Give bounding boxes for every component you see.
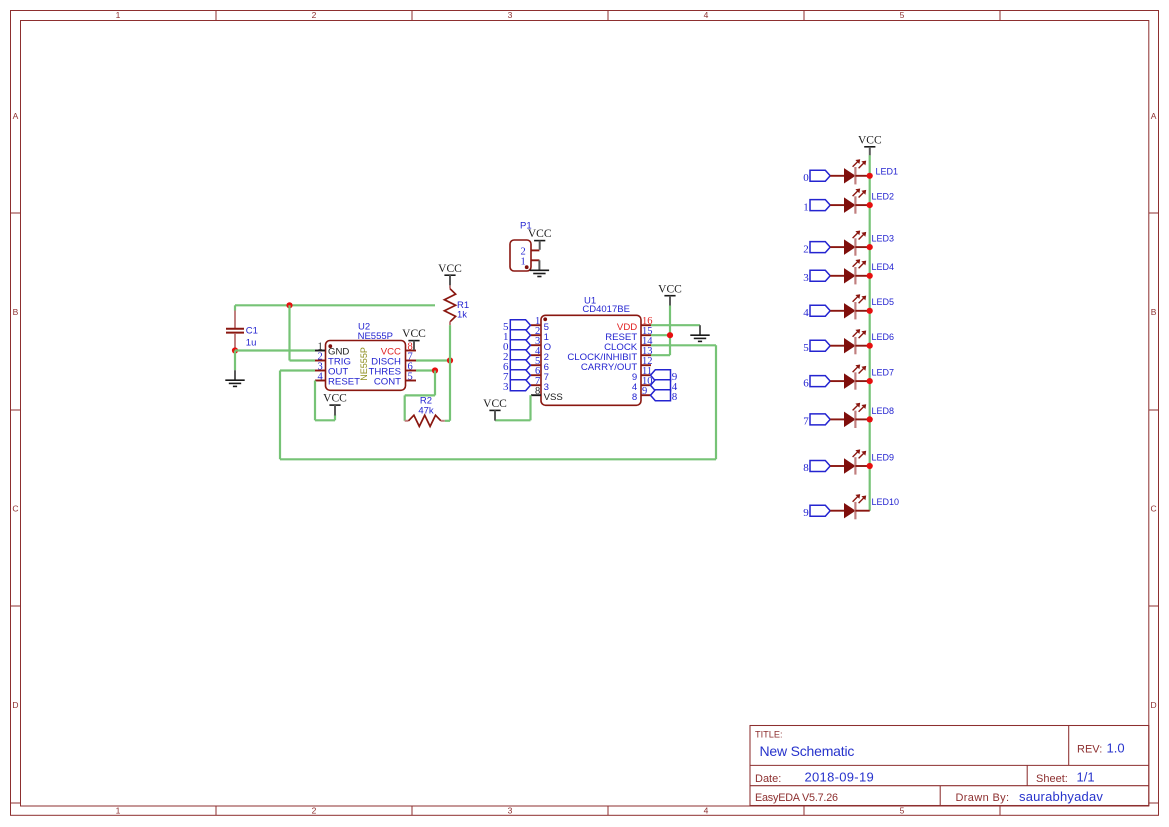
node LED4 rail junction bbox=[867, 273, 873, 279]
net flag 3 at U1 pin 7 bbox=[503, 380, 531, 394]
ground at U1 VDD line bbox=[690, 325, 709, 341]
svg-text:LED5: LED5 bbox=[872, 297, 895, 307]
svg-text:LED1: LED1 bbox=[876, 167, 899, 177]
net flag 7 at LED8 bbox=[803, 414, 830, 428]
net flag 2 at LED3 bbox=[803, 242, 830, 256]
wire top rail C1 to x435 bbox=[235, 304, 435, 306]
node top rail junction bbox=[286, 302, 292, 308]
svg-text:1/1: 1/1 bbox=[1077, 769, 1095, 784]
svg-text:VCC: VCC bbox=[402, 328, 426, 340]
node LED8 rail junction bbox=[867, 416, 873, 422]
svg-text:VCC: VCC bbox=[528, 228, 552, 240]
U2 pin 6 THRES bbox=[368, 362, 416, 378]
svg-text:VCC: VCC bbox=[483, 398, 507, 410]
svg-text:3: 3 bbox=[508, 10, 513, 20]
power VCC at LED rail bbox=[858, 134, 882, 155]
svg-text:REV:: REV: bbox=[1077, 744, 1102, 756]
ground below C1 bbox=[225, 370, 244, 386]
wire C1 to ground bbox=[234, 351, 236, 371]
svg-text:A: A bbox=[13, 111, 19, 121]
wire VDD to ground bbox=[651, 324, 700, 326]
node C1/GND junction bbox=[232, 347, 238, 353]
svg-text:5: 5 bbox=[803, 342, 809, 354]
LED1 bbox=[830, 159, 898, 184]
node LED1 rail junction bbox=[867, 173, 873, 179]
node LED7 rail junction bbox=[867, 378, 873, 384]
svg-text:6: 6 bbox=[803, 377, 809, 389]
net flag 9 at LED10 bbox=[803, 505, 830, 519]
U1 pin 8 VSS bbox=[531, 386, 563, 403]
U1 pin 3 (Q0) bbox=[531, 336, 551, 353]
svg-text:1u: 1u bbox=[246, 338, 257, 349]
net flag 5 at LED6 bbox=[803, 340, 830, 354]
svg-text:5: 5 bbox=[900, 10, 905, 20]
U1 pin 13 CLOCK/INHIBIT bbox=[567, 346, 652, 363]
svg-text:CARRY/OUT: CARRY/OUT bbox=[581, 362, 637, 373]
wire RESET to VCC bbox=[315, 381, 335, 421]
svg-text:1: 1 bbox=[803, 201, 809, 213]
net flag 1 at U1 pin 2 bbox=[503, 330, 531, 344]
net flag 0 at LED1 bbox=[803, 170, 830, 184]
svg-text:B: B bbox=[1151, 307, 1157, 317]
svg-text:Sheet:: Sheet: bbox=[1036, 773, 1068, 785]
net flag 7 at U1 pin 6 bbox=[503, 370, 531, 384]
svg-text:2018-09-19: 2018-09-19 bbox=[805, 769, 875, 784]
LED9 bbox=[830, 449, 894, 474]
power VCC above U1 bbox=[658, 283, 682, 305]
svg-text:4: 4 bbox=[704, 806, 709, 816]
svg-text:EasyEDA V5.7.26: EasyEDA V5.7.26 bbox=[755, 792, 838, 804]
svg-text:RESET: RESET bbox=[328, 377, 360, 388]
net flag 8 at U1 pin 9 bbox=[651, 390, 678, 404]
svg-text:3: 3 bbox=[803, 272, 809, 284]
capacitor C1 bbox=[226, 311, 258, 351]
wire DISCH to R1/R2 junction bbox=[416, 359, 450, 361]
net flag 8 at LED9 bbox=[803, 461, 830, 475]
svg-text:4: 4 bbox=[704, 10, 709, 20]
LED3 bbox=[830, 231, 894, 256]
U1 pin 4 (Q2) bbox=[531, 346, 549, 363]
svg-text:B: B bbox=[13, 307, 19, 317]
svg-text:VCC: VCC bbox=[438, 263, 462, 275]
net flag 4 at U1 pin 10 bbox=[651, 380, 678, 394]
net flag 6 at U1 pin 5 bbox=[503, 360, 531, 374]
wire R1 bottom rail bbox=[445, 325, 450, 421]
svg-text:7: 7 bbox=[803, 416, 809, 428]
net flag 5 at U1 pin 1 bbox=[503, 320, 531, 334]
net flag 2 at U1 pin 4 bbox=[503, 350, 531, 364]
svg-text:47k: 47k bbox=[418, 405, 434, 416]
U2 pin 1 GND bbox=[315, 342, 349, 358]
svg-text:2: 2 bbox=[803, 243, 809, 255]
U1 pin 12 CARRY/OUT bbox=[581, 356, 653, 373]
net flag 0 at U1 pin 3 bbox=[503, 340, 531, 354]
svg-text:New Schematic: New Schematic bbox=[760, 743, 855, 759]
svg-text:C: C bbox=[1151, 504, 1157, 514]
LED7 bbox=[830, 365, 894, 390]
svg-text:5: 5 bbox=[900, 806, 905, 816]
svg-text:2: 2 bbox=[312, 10, 317, 20]
svg-text:C: C bbox=[12, 504, 18, 514]
node RESET junction bbox=[667, 332, 673, 338]
U2 pin 5 CONT bbox=[374, 372, 416, 388]
U2 pin 7 DISCH bbox=[371, 352, 416, 368]
wire x435 down to R2 left bbox=[405, 371, 435, 421]
svg-text:1.0: 1.0 bbox=[1107, 741, 1125, 756]
wire VCC to RESET and CLOCK/INHIBIT bbox=[651, 306, 670, 356]
svg-text:8: 8 bbox=[672, 391, 678, 403]
U2 pin 4 RESET bbox=[315, 372, 360, 388]
svg-text:LED4: LED4 bbox=[872, 262, 895, 272]
svg-text:8: 8 bbox=[803, 462, 809, 474]
svg-text:VCC: VCC bbox=[658, 283, 682, 295]
svg-text:1k: 1k bbox=[457, 310, 467, 321]
resistor R1 1k bbox=[444, 285, 469, 325]
net flag 3 at LED4 bbox=[803, 270, 830, 284]
svg-text:CD4017BE: CD4017BE bbox=[582, 304, 630, 315]
svg-text:VCC: VCC bbox=[323, 393, 347, 405]
power VCC at U1 VSS bbox=[483, 398, 507, 421]
U1 pin 5 (Q6) bbox=[531, 356, 549, 373]
net flag 6 at LED7 bbox=[803, 376, 830, 390]
svg-text:1: 1 bbox=[116, 10, 121, 20]
svg-text:9: 9 bbox=[803, 507, 809, 519]
net flag 9 at U1 pin 11 bbox=[651, 370, 678, 384]
svg-text:TITLE:: TITLE: bbox=[755, 730, 783, 740]
wire TRIG branch bbox=[290, 305, 316, 360]
svg-text:2: 2 bbox=[312, 806, 317, 816]
IC U1 CD4017BE body bbox=[541, 296, 641, 406]
wire OUT feedback to CLOCK bbox=[280, 345, 716, 459]
U1 pin 6 (Q7) bbox=[531, 366, 549, 383]
svg-text:1: 1 bbox=[116, 806, 121, 816]
net flag 1 at LED2 bbox=[803, 200, 830, 214]
svg-text:8: 8 bbox=[632, 392, 637, 403]
U1 pin 2 (Q1) bbox=[531, 326, 549, 343]
svg-text:9: 9 bbox=[642, 386, 647, 397]
svg-text:saurabhyadav: saurabhyadav bbox=[1019, 789, 1103, 804]
connector P1 bbox=[510, 221, 532, 272]
svg-text:0: 0 bbox=[803, 172, 809, 184]
node LED9 rail junction bbox=[867, 463, 873, 469]
svg-text:3: 3 bbox=[508, 806, 513, 816]
LED8 bbox=[830, 403, 894, 428]
wire GND pin1 to C1 bbox=[235, 349, 315, 351]
svg-text:NE555P: NE555P bbox=[358, 331, 393, 342]
P1 pin 1 bbox=[520, 256, 539, 267]
svg-text:8: 8 bbox=[535, 386, 540, 397]
svg-text:LED10: LED10 bbox=[872, 497, 900, 507]
svg-text:4: 4 bbox=[803, 307, 809, 319]
title block bbox=[750, 726, 1149, 806]
U1 pin 11 9 bbox=[632, 366, 652, 383]
node DISCH junction bbox=[447, 357, 453, 363]
U1 pin 9 8 bbox=[632, 386, 651, 403]
U1 pin 14 CLOCK bbox=[604, 336, 653, 353]
svg-text:VCC: VCC bbox=[858, 134, 882, 146]
resistor R2 47k bbox=[405, 396, 445, 427]
svg-text:LED6: LED6 bbox=[872, 332, 895, 342]
node LED3 rail junction bbox=[867, 244, 873, 250]
svg-text:A: A bbox=[1151, 111, 1157, 121]
LED2 bbox=[830, 189, 894, 214]
U1 pin 1 (Q5) bbox=[531, 316, 549, 333]
U2 pin 2 TRIG bbox=[315, 352, 351, 368]
svg-text:3: 3 bbox=[503, 381, 509, 393]
power VCC at U2 RESET bbox=[323, 393, 347, 416]
wire C1 top lead connection bbox=[234, 305, 236, 310]
svg-text:CONT: CONT bbox=[374, 377, 401, 388]
wire VSS to VCC bbox=[495, 395, 531, 420]
svg-text:1: 1 bbox=[520, 256, 525, 267]
LED5 bbox=[830, 294, 894, 319]
net flag 4 at LED5 bbox=[803, 305, 830, 319]
svg-text:4: 4 bbox=[318, 372, 324, 383]
node LED6 rail junction bbox=[867, 343, 873, 349]
svg-text:Drawn By:: Drawn By: bbox=[956, 792, 1010, 804]
svg-text:LED9: LED9 bbox=[872, 452, 895, 462]
svg-text:D: D bbox=[12, 700, 18, 710]
node LED2 rail junction bbox=[867, 202, 873, 208]
LED4 bbox=[830, 259, 894, 284]
U1 pin 10 4 bbox=[632, 376, 653, 393]
svg-text:5: 5 bbox=[408, 372, 413, 383]
svg-text:LED8: LED8 bbox=[872, 406, 895, 416]
ground at P1 pin 1 bbox=[530, 260, 549, 276]
U1 pin 16 VDD bbox=[617, 316, 653, 333]
U1 pin 15 RESET bbox=[605, 326, 652, 343]
LED10 bbox=[830, 494, 899, 519]
U2 pin 3 OUT bbox=[315, 362, 348, 378]
wire LED VCC rail bbox=[869, 155, 871, 511]
power VCC at U2 pin 8 bbox=[402, 328, 426, 350]
wire THRES to x435 bbox=[416, 369, 435, 371]
U1 pin 7 (Q3) bbox=[531, 376, 549, 393]
power VCC above R1 bbox=[438, 263, 462, 286]
svg-text:Date:: Date: bbox=[755, 773, 781, 785]
svg-text:LED2: LED2 bbox=[872, 192, 895, 202]
P1 pin 2 bbox=[520, 246, 539, 257]
svg-text:VSS: VSS bbox=[544, 392, 563, 403]
svg-text:LED3: LED3 bbox=[872, 234, 895, 244]
svg-text:C1: C1 bbox=[246, 325, 258, 336]
LED6 bbox=[830, 329, 894, 354]
op IC U2 NE555P body bbox=[326, 322, 406, 391]
node LED5 rail junction bbox=[867, 308, 873, 314]
svg-text:LED7: LED7 bbox=[872, 368, 895, 378]
svg-text:D: D bbox=[1151, 700, 1157, 710]
U2 pin 8 VCC bbox=[381, 342, 416, 358]
node THRES junction bbox=[432, 367, 438, 373]
power VCC at P1 pin 2 bbox=[528, 228, 552, 250]
